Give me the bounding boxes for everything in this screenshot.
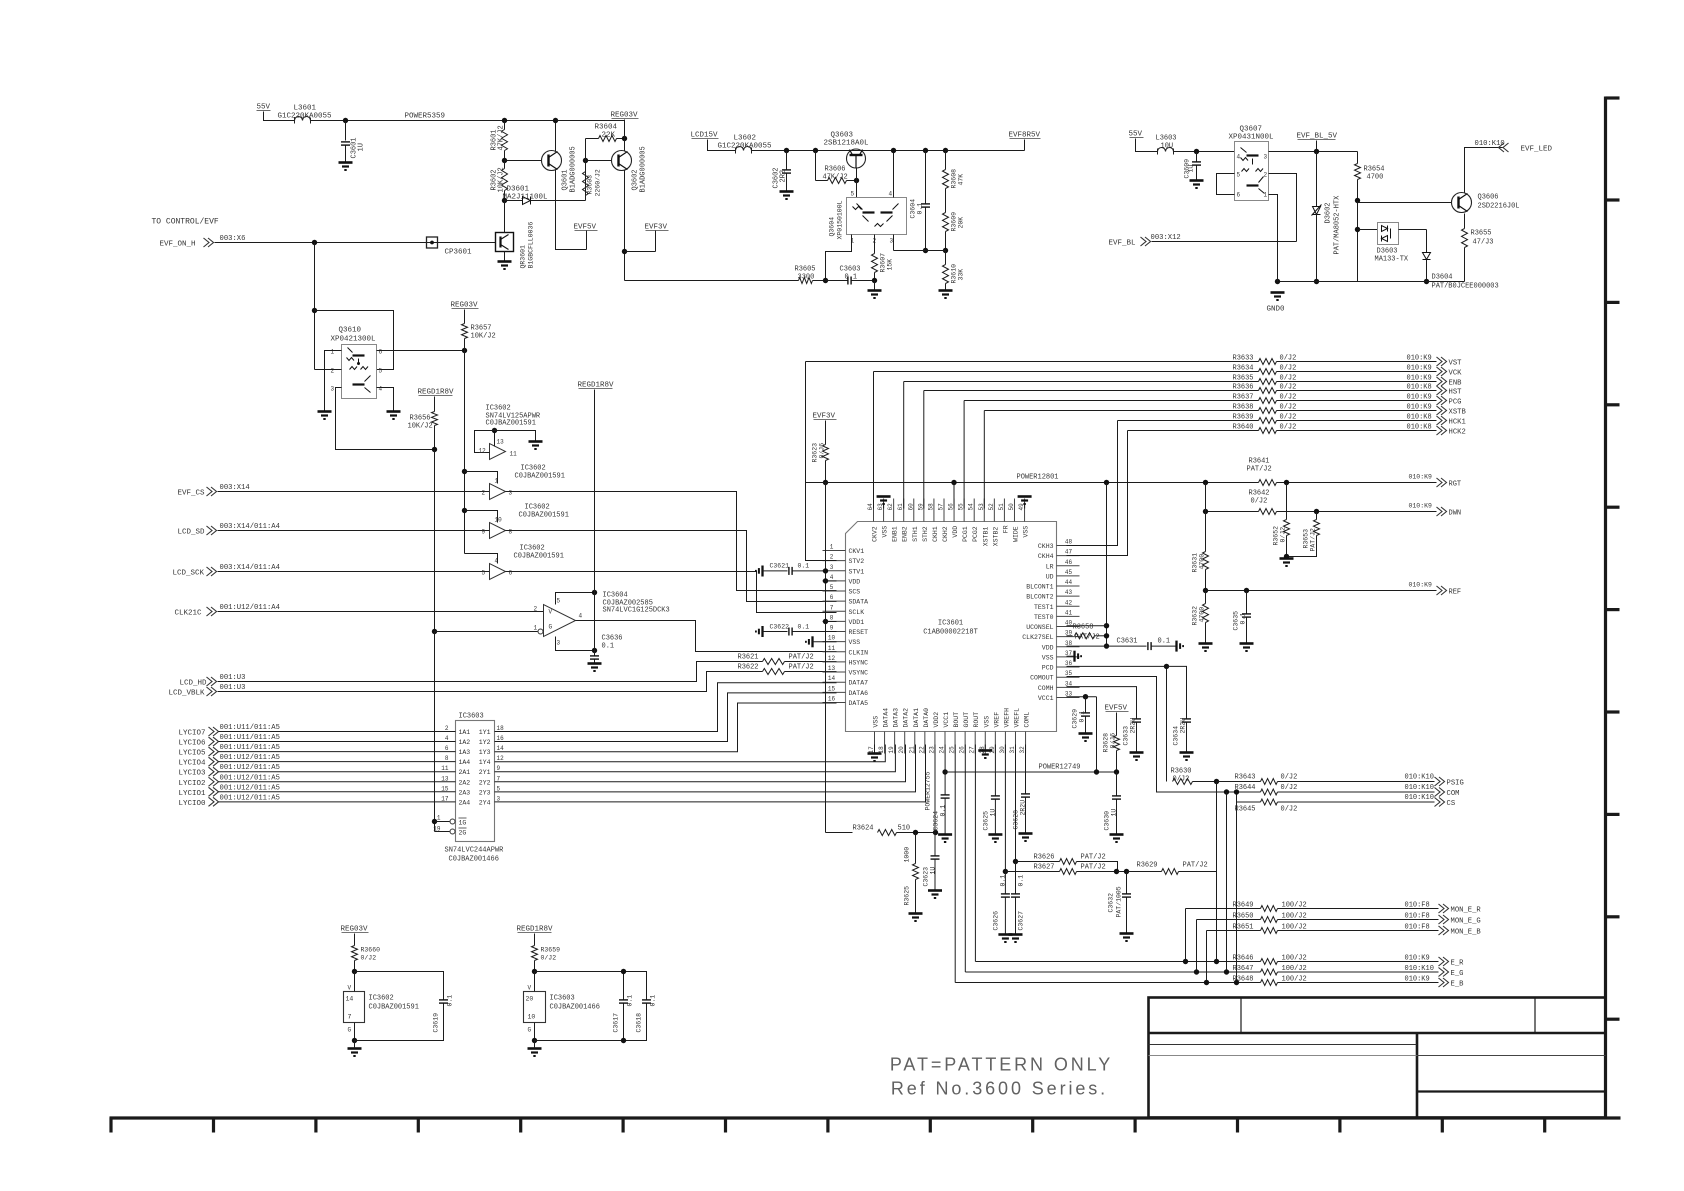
svg-text:0.1: 0.1 — [1158, 638, 1171, 646]
wire EVF_BL_5V corner to R3654 — [1357, 152, 1359, 164]
svg-text:VREFH: VREFH — [1003, 708, 1010, 728]
svg-text:001:U12/011:A5: 001:U12/011:A5 — [220, 754, 280, 762]
svg-text:LCD_VBLK: LCD_VBLK — [169, 690, 206, 698]
svg-text:0/J2: 0/J2 — [361, 955, 377, 962]
wire POWER5359 branch right — [556, 120, 625, 122]
wire Q3610 pin1 to ground — [325, 351, 342, 412]
svg-text:4700: 4700 — [1199, 607, 1206, 623]
wire REGD1R8V to IC3603 V pin — [534, 972, 536, 992]
wire Q3610 pin6 — [377, 350, 465, 352]
net connector HCK2 010:K8 — [1277, 430, 1437, 432]
net connector CS 010:K10 — [1278, 801, 1435, 803]
svg-text:PAT/1005: PAT/1005 — [1116, 886, 1123, 917]
svg-text:1U: 1U — [1111, 809, 1118, 817]
svg-text:CKH4: CKH4 — [1038, 553, 1054, 560]
svg-text:8: 8 — [509, 529, 513, 536]
IC3601 left pins 1-16 — [823, 550, 846, 552]
svg-text:7: 7 — [830, 604, 834, 611]
svg-text:2: 2 — [1264, 172, 1268, 179]
junction node Q3601 base — [502, 158, 507, 163]
svg-text:R3626: R3626 — [1034, 854, 1055, 862]
svg-text:POWER5359: POWER5359 — [405, 113, 446, 121]
svg-text:R3649: R3649 — [1233, 902, 1254, 910]
svg-text:2Y4: 2Y4 — [479, 799, 491, 806]
svg-text:D3603: D3603 — [1377, 248, 1398, 256]
junction R3657/pin6 — [462, 348, 467, 353]
title block table — [1149, 998, 1606, 1118]
svg-text:5: 5 — [1237, 172, 1241, 179]
svg-text:6: 6 — [509, 570, 513, 577]
junction COM — [1224, 789, 1229, 794]
svg-text:C3625: C3625 — [983, 811, 990, 831]
junction POWER12801 x1106 — [1104, 480, 1109, 485]
svg-text:BLCONT1: BLCONT1 — [1026, 584, 1053, 591]
capacitor C3624 0.1 — [941, 795, 950, 798]
svg-text:DATA3: DATA3 — [893, 708, 900, 728]
svg-text:VST: VST — [1449, 360, 1463, 368]
svg-text:LCD_HD: LCD_HD — [180, 680, 208, 688]
svg-text:C3632: C3632 — [1108, 893, 1115, 913]
wire POWER12801 down to DWN/REF — [1205, 483, 1207, 552]
net connector VST 010:K9 — [1277, 361, 1437, 363]
svg-text:2A3: 2A3 — [459, 789, 471, 796]
junction R3656/Q3610 pin3 — [432, 447, 437, 452]
wire 1Y4 to DATA4 — [495, 745, 886, 762]
wire ROUT down to E_R — [974, 745, 976, 962]
svg-text:12: 12 — [479, 448, 487, 455]
svg-text:PAT/J2: PAT/J2 — [789, 654, 814, 662]
wire MON_E_R branch — [1186, 908, 1261, 910]
svg-text:0/J6: 0/J6 — [819, 443, 826, 459]
junction node Q3602 base — [583, 158, 588, 163]
svg-text:2SD2216J0L: 2SD2216J0L — [1478, 203, 1520, 211]
svg-text:Q3604: Q3604 — [829, 217, 836, 237]
wire Q3601 collector to POWER5359 — [555, 121, 557, 152]
svg-text:E_B: E_B — [1451, 981, 1465, 989]
svg-text:XSTB: XSTB — [1449, 409, 1467, 417]
junction R3623/POWER12801 — [823, 480, 828, 485]
svg-text:4: 4 — [379, 386, 383, 393]
svg-text:VDD1: VDD1 — [849, 619, 865, 626]
svg-text:5: 5 — [482, 570, 486, 577]
svg-text:POWER12801: POWER12801 — [1017, 474, 1059, 482]
svg-text:0.1: 0.1 — [940, 805, 947, 817]
svg-text:13: 13 — [441, 775, 449, 782]
IC3601 bottom pins 17-32 — [874, 732, 876, 754]
wire 2Y3 to DATA1 — [495, 745, 916, 792]
capacitor C3604 0.1 — [923, 148, 928, 153]
wire MON_E_G branch — [1197, 919, 1261, 921]
svg-text:C3635: C3635 — [1233, 611, 1240, 631]
svg-text:SN74LVC244APWR: SN74LVC244APWR — [445, 847, 505, 855]
svg-text:R3639: R3639 — [1233, 414, 1254, 422]
svg-text:WIDE: WIDE — [1012, 526, 1019, 542]
svg-text:2R2U: 2R2U — [1130, 718, 1137, 734]
svg-text:64: 64 — [867, 503, 874, 511]
svg-text:4: 4 — [830, 574, 834, 581]
svg-text:R3629: R3629 — [1137, 862, 1158, 870]
svg-text:LCD_SD: LCD_SD — [178, 529, 206, 537]
svg-text:DATA1: DATA1 — [913, 708, 920, 728]
wire pin34 COMH to C3633 — [1067, 687, 1137, 719]
svg-text:MA133-TX: MA133-TX — [1375, 256, 1409, 264]
svg-text:2G: 2G — [459, 830, 467, 837]
wire LCD_SD — [218, 530, 490, 532]
diode D3602 PAT/MA8052-HTX (unmounted) — [1316, 152, 1318, 207]
svg-text:L3601: L3601 — [294, 105, 317, 113]
svg-text:CKH1: CKH1 — [932, 526, 939, 542]
wire Q3610 pin4 to ground — [377, 388, 394, 412]
svg-text:23: 23 — [928, 746, 935, 754]
junction pin36/C3634 branch — [1164, 664, 1169, 669]
svg-text:IC3602: IC3602 — [486, 405, 511, 413]
wire EVF_ON_H to Q3610 — [314, 243, 316, 370]
wire LCD_VBLK to VSYNC — [218, 672, 741, 692]
svg-text:13: 13 — [828, 665, 836, 672]
svg-text:20: 20 — [526, 996, 534, 1003]
svg-text:EVF_LED: EVF_LED — [1521, 146, 1553, 154]
svg-text:REF: REF — [1449, 589, 1462, 597]
wire ENB row from ENB2 — [904, 381, 1259, 383]
resistor R3656 10K/J2 — [434, 397, 436, 412]
svg-text:001:U3: 001:U3 — [220, 674, 246, 682]
wire 55V to L3601 — [264, 112, 295, 121]
svg-text:R3632: R3632 — [1192, 606, 1199, 626]
svg-text:3: 3 — [890, 238, 894, 245]
net connector E_B 010:K9 — [1278, 982, 1439, 984]
svg-text:001:U11/011:A5: 001:U11/011:A5 — [220, 744, 280, 752]
wire IC3603 G pin to gnd — [534, 1023, 536, 1041]
svg-text:R3609: R3609 — [951, 212, 958, 232]
svg-text:Q3610: Q3610 — [339, 327, 362, 335]
svg-text:010:K9: 010:K9 — [1405, 976, 1430, 984]
svg-text:1A4: 1A4 — [459, 759, 471, 766]
svg-text:C0JBAZ001591: C0JBAZ001591 — [519, 512, 569, 520]
wire Q3603 base down to Q3604 pin5 — [856, 168, 858, 181]
svg-text:STV2: STV2 — [849, 558, 865, 565]
svg-text:1: 1 — [830, 544, 834, 551]
ground at IC3603 block — [528, 1049, 542, 1057]
svg-text:XP0421300L: XP0421300L — [331, 336, 377, 344]
capacitor C3623 1U — [931, 856, 940, 859]
wire IC3602 G pin to gnd — [354, 1023, 356, 1041]
svg-text:PCG: PCG — [1449, 399, 1462, 407]
wire Q3601 base — [505, 160, 542, 162]
svg-text:10: 10 — [495, 517, 503, 524]
net connector MON_E_R 010:F8 — [1278, 908, 1439, 910]
svg-text:010:K9: 010:K9 — [1409, 582, 1433, 589]
ground left C3621 — [756, 566, 763, 577]
svg-text:14: 14 — [346, 996, 354, 1003]
border frame bottom edge — [110, 1118, 1621, 1133]
wire base Q3606 — [1358, 202, 1452, 204]
svg-text:VSS: VSS — [873, 716, 880, 728]
svg-text:UD: UD — [1046, 573, 1054, 580]
wire pin33 down to POWER12749 — [1096, 697, 1098, 772]
svg-text:COML: COML — [1024, 712, 1031, 728]
svg-text:010:K8: 010:K8 — [1407, 414, 1432, 422]
svg-text:46: 46 — [1065, 559, 1073, 566]
wire EVE3V rail down left side of IC3601 — [825, 483, 827, 833]
svg-text:LCD_SCK: LCD_SCK — [173, 570, 205, 578]
border frame right edge — [1606, 97, 1620, 1120]
svg-text:QR3601: QR3601 — [520, 245, 527, 269]
junction R3654/D3603 — [1355, 198, 1360, 203]
svg-text:C0JBAZ001466: C0JBAZ001466 — [550, 1004, 600, 1012]
wire to C3617/C3618 — [535, 972, 647, 1000]
wire 1Y3 to DATA5 — [495, 703, 837, 752]
svg-text:8: 8 — [830, 614, 834, 621]
wire Q3604 pin4 to rail — [893, 151, 895, 198]
svg-text:010:K8: 010:K8 — [1407, 424, 1432, 432]
svg-text:GND0: GND0 — [1267, 306, 1286, 314]
junction D3604 bottom — [1424, 279, 1429, 284]
svg-text:RESET: RESET — [849, 629, 869, 636]
svg-text:1: 1 — [331, 349, 335, 356]
wire Q3607 pin3 EVF_BL_5V — [1269, 151, 1358, 153]
svg-text:1Y1: 1Y1 — [479, 729, 491, 736]
junction R3660/C3619 — [352, 969, 357, 974]
junction pin38 CLK27SEL/C3631 — [1104, 643, 1109, 648]
svg-text:47K: 47K — [958, 174, 965, 186]
svg-text:E_R: E_R — [1451, 960, 1465, 968]
wire pins 40/39/38 to POWER12801 vertical — [1106, 483, 1108, 647]
svg-text:VCC1: VCC1 — [1038, 695, 1054, 702]
svg-text:9: 9 — [482, 529, 486, 536]
svg-text:MON_E_G: MON_E_G — [1451, 918, 1481, 926]
wire LYCIO6 — [219, 741, 456, 743]
svg-text:010:K9: 010:K9 — [1407, 365, 1432, 373]
capacitor C3621 0.1 at STV1 — [758, 570, 760, 572]
svg-text:BOUT: BOUT — [953, 712, 960, 728]
svg-text:2Y3: 2Y3 — [479, 789, 491, 796]
wire pin29 VREF down to C3625 — [994, 745, 996, 796]
svg-text:ENB1: ENB1 — [892, 526, 899, 542]
svg-text:MON_E_R: MON_E_R — [1451, 907, 1482, 915]
svg-text:VCK: VCK — [1449, 370, 1463, 378]
svg-text:010:K9: 010:K9 — [1407, 355, 1432, 363]
wire EVF_CS — [218, 491, 490, 493]
junction PSIG — [1214, 779, 1219, 784]
wire COM net vertical to E_G — [1226, 792, 1228, 972]
svg-text:R3605: R3605 — [795, 266, 816, 274]
svg-text:R3604: R3604 — [595, 124, 618, 132]
svg-text:C3630: C3630 — [1104, 811, 1111, 831]
svg-text:IC3604: IC3604 — [603, 592, 628, 600]
svg-text:LYCIO3: LYCIO3 — [179, 770, 207, 778]
ground at C3609 — [1190, 181, 1204, 189]
junction rail/C3621 — [823, 568, 828, 573]
svg-text:HST: HST — [1449, 389, 1463, 397]
junction IC3602 gnd — [352, 1038, 357, 1043]
svg-text:001:U3: 001:U3 — [220, 684, 246, 692]
svg-text:25: 25 — [949, 746, 956, 754]
svg-text:STH2: STH2 — [922, 526, 929, 542]
svg-text:R3650: R3650 — [1233, 913, 1254, 921]
svg-text:10: 10 — [528, 1014, 536, 1021]
junction POWER12749 start — [942, 769, 947, 774]
wire pin33 VCC1 — [1067, 696, 1097, 698]
svg-text:PCD: PCD — [1042, 665, 1054, 672]
svg-text:SN74LVC1G125DCK3: SN74LVC1G125DCK3 — [603, 607, 670, 615]
wire 2Y2 to DATA2 — [495, 745, 906, 782]
resistor R3655 47/J3 — [1464, 214, 1466, 229]
svg-text:PAT/J2: PAT/J2 — [1081, 864, 1106, 872]
junction R3652/R3653 gnd — [1284, 554, 1289, 559]
junction D3603 left — [1355, 227, 1360, 232]
svg-text:45: 45 — [1065, 569, 1073, 576]
resistor R3625 1000 — [915, 833, 917, 864]
svg-text:C0JBAZ001591: C0JBAZ001591 — [514, 553, 564, 561]
svg-text:C3603: C3603 — [840, 266, 861, 274]
svg-text:LR: LR — [1046, 563, 1054, 570]
svg-text:9: 9 — [497, 765, 501, 772]
svg-text:3: 3 — [830, 564, 834, 571]
wire pin56 VDD up — [953, 483, 955, 509]
wire pin31 VREFL down to R3626 row — [1015, 745, 1017, 862]
wire PCG row from PCG1 — [964, 400, 1258, 402]
svg-text:1: 1 — [1264, 192, 1268, 199]
wire IC3604 G enable from R3656 net — [432, 629, 437, 634]
junction RGT/R3652 — [1284, 480, 1289, 485]
svg-text:C3619: C3619 — [433, 1013, 440, 1033]
svg-text:POWER12749: POWER12749 — [1039, 764, 1081, 772]
capacitor C3625 1U — [991, 796, 1000, 799]
svg-text:R3653: R3653 — [1303, 529, 1310, 549]
capacitor C3633 2R2U — [1132, 719, 1141, 722]
svg-text:VREF: VREF — [993, 712, 1000, 728]
junction D3602 top — [1314, 149, 1319, 154]
svg-text:20: 20 — [898, 746, 905, 754]
svg-text:R3641: R3641 — [1249, 458, 1270, 466]
svg-text:51: 51 — [998, 503, 1005, 511]
svg-text:54: 54 — [968, 503, 975, 511]
svg-text:IC3602: IC3602 — [525, 504, 550, 512]
net connector COM 010:K10 — [1278, 791, 1435, 793]
svg-text:2Y1: 2Y1 — [479, 769, 491, 776]
svg-text:R3655: R3655 — [1471, 230, 1492, 238]
svg-text:ENB2: ENB2 — [902, 526, 909, 542]
svg-text:47: 47 — [1065, 549, 1073, 556]
ground at C3623 — [928, 891, 942, 899]
ground at C3603/R3607 — [874, 281, 876, 291]
resistor R3659 0/J2 — [534, 934, 536, 946]
capacitor C3630 1U — [1112, 796, 1121, 799]
wire GND0 bus — [1278, 281, 1465, 283]
svg-text:18: 18 — [497, 725, 505, 732]
net connector VCK 010:K9 — [1277, 371, 1437, 373]
svg-text:001:U11/011:A5: 001:U11/011:A5 — [220, 734, 280, 742]
svg-text:R3608: R3608 — [951, 169, 958, 189]
svg-text:6: 6 — [1237, 192, 1241, 199]
svg-text:R3637: R3637 — [1233, 394, 1254, 402]
dual diode D3603 MA133-TX — [1358, 229, 1378, 231]
svg-text:510: 510 — [898, 825, 911, 833]
svg-text:44: 44 — [1065, 579, 1073, 586]
IC3603 enable pins 1G 2G — [450, 819, 455, 824]
svg-text:Q3606: Q3606 — [1478, 194, 1499, 202]
wire BOUT down to E_B — [954, 745, 956, 983]
net connector XSTB 010:K9 — [1277, 410, 1437, 412]
wire CLK21C — [218, 611, 544, 613]
svg-text:0/J2: 0/J2 — [541, 955, 557, 962]
wire IC3604 pin3 — [556, 637, 595, 651]
svg-text:2R2: 2R2 — [780, 170, 788, 183]
svg-text:1A1: 1A1 — [459, 729, 471, 736]
svg-text:1U: 1U — [358, 143, 366, 151]
svg-text:R3622: R3622 — [738, 664, 759, 672]
svg-text:VSS: VSS — [983, 716, 990, 728]
svg-text:LYCIO2: LYCIO2 — [179, 780, 206, 788]
svg-text:Ref No.3600 Series.: Ref No.3600 Series. — [891, 1079, 1108, 1099]
svg-text:30: 30 — [999, 746, 1006, 754]
ground at C3602 — [780, 192, 794, 200]
svg-text:C0JBAZ001466: C0JBAZ001466 — [449, 856, 499, 864]
svg-text:20K: 20K — [958, 217, 965, 229]
wire to Q3607 — [1174, 151, 1235, 153]
wire Q3604 pin1 route — [826, 235, 852, 281]
svg-text:2A1: 2A1 — [459, 769, 471, 776]
svg-text:9: 9 — [830, 625, 834, 632]
svg-text:Q3601: Q3601 — [562, 169, 570, 190]
svg-text:C3633: C3633 — [1123, 726, 1130, 746]
svg-text:001:U12/011:A5: 001:U12/011:A5 — [220, 784, 280, 792]
svg-text:5: 5 — [497, 785, 501, 792]
junction R3626/C3627 — [1013, 859, 1018, 864]
resistor R3628 0/J6 — [1116, 713, 1118, 736]
svg-text:15K: 15K — [887, 259, 894, 271]
ground at C3601 — [339, 163, 353, 171]
svg-text:VDD: VDD — [952, 526, 959, 538]
ground at R3625 — [909, 914, 923, 922]
svg-text:19: 19 — [888, 746, 895, 754]
svg-text:UCONSEL: UCONSEL — [1026, 624, 1053, 631]
svg-text:L3602: L3602 — [734, 135, 757, 143]
svg-text:11: 11 — [510, 451, 518, 458]
wire 2Y1 to DATA3 — [495, 745, 896, 772]
svg-text:010:K9: 010:K9 — [1409, 503, 1433, 510]
svg-text:R3628: R3628 — [1103, 733, 1110, 753]
svg-text:LYCIO6: LYCIO6 — [179, 740, 207, 748]
svg-text:R3646: R3646 — [1233, 955, 1254, 963]
ground at C3629 — [1079, 734, 1093, 742]
wire Q3607 pins 5-6 jumper — [1217, 174, 1235, 195]
ground at R3632 — [1199, 644, 1213, 652]
svg-text:15: 15 — [441, 785, 449, 792]
ground at pin28 VSS bottom — [984, 745, 986, 751]
svg-text:R3657: R3657 — [471, 325, 492, 333]
svg-text:003:X14/011:A4: 003:X14/011:A4 — [220, 564, 280, 572]
wire COM row — [1157, 791, 1261, 793]
svg-text:24: 24 — [938, 746, 945, 754]
svg-text:V: V — [348, 985, 352, 992]
net connector RGT 010:K9 — [1277, 482, 1437, 484]
ground right C3631 — [1177, 641, 1184, 652]
gate input bubble G — [538, 629, 543, 634]
svg-text:CLK27SEL: CLK27SEL — [1022, 634, 1053, 641]
svg-text:R3627: R3627 — [1034, 864, 1055, 872]
net connector MON_E_G 010:F8 — [1278, 919, 1439, 921]
capacitor C3619 0.1 — [439, 1000, 448, 1003]
capacitor C3627 0.1 — [1015, 862, 1017, 894]
svg-text:CLK21C: CLK21C — [175, 610, 203, 618]
svg-text:VDD2: VDD2 — [933, 712, 940, 728]
svg-text:010:K10: 010:K10 — [1405, 794, 1434, 802]
capacitor C3632 PAT/1005 — [1117, 871, 1127, 873]
svg-text:26: 26 — [959, 746, 966, 754]
resistor R3608 47K — [943, 148, 948, 153]
svg-text:COMH: COMH — [1038, 685, 1054, 692]
